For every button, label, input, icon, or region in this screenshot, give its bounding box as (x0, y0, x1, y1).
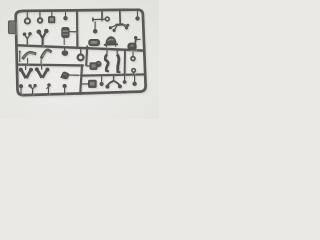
part: square block right of V3 upper (87, 63, 98, 70)
vertical runner V4 (right, rail A to rail B) (124, 51, 126, 75)
rail B right (lower middle runner, right half) (81, 74, 145, 75)
vertical runner above spider part (119, 10, 121, 24)
part: bent arm 1 under rail A (left) (19, 51, 37, 65)
part: small Y figure on rail A (left) (23, 33, 31, 45)
part: seated figure near right rail (128, 37, 141, 51)
sprue outer frame (16, 10, 146, 95)
part: bottom pin 1 (ball head) (19, 85, 22, 95)
part: square block right of V3 lower (82, 80, 97, 88)
part: wishbone under rail B right (106, 75, 122, 88)
part: small pin with ball on top rail (64, 12, 67, 20)
part: V boots pair 2 under rail B (35, 66, 49, 78)
photo background (0, 0, 159, 119)
part: spider (bar with four legs) (109, 24, 129, 31)
part: hanging hook pin (93, 22, 97, 34)
part: canteen block on top rail (48, 12, 55, 23)
vertical runner V3 lower (rail B to bottom rail) (80, 65, 82, 94)
part: small gun blob under rail A (62, 47, 69, 56)
part: bent arm 2 under rail A (41, 50, 52, 65)
part: large Y figure on rail A (37, 29, 48, 45)
part: pin with ball near top-right corner (136, 11, 139, 20)
part: boot attached to V3 lower (60, 72, 79, 80)
part: bent leg hanging from rail A (105, 50, 109, 72)
part: crossbar with ring (on V3 stub) (93, 17, 109, 22)
part: bottom flag pin (46, 84, 50, 95)
part: dome helmet on rail A (104, 37, 118, 48)
part: pin with ball below rail B right 3 (133, 75, 136, 85)
part: ring on top rail 2 (38, 12, 43, 23)
part: ring pin above rail B right (132, 69, 136, 75)
vertical runner V2 (76, 11, 79, 46)
vertical runner V3 middle (rail A to rail B) (86, 47, 87, 66)
part: block attached outside left rail (8, 21, 15, 34)
part: pin with dot below rail B right 2 (123, 76, 126, 84)
part: flat pouch on rail A (middle) (89, 39, 100, 45)
part: bottom pin 2 (ball head) (63, 84, 66, 94)
part: bottom Y pin (29, 84, 36, 95)
part: ring on top rail 1 (25, 12, 30, 24)
part: V boots pair 1 under rail B (19, 66, 32, 78)
vertical runner V3 upper stub (101, 10, 103, 20)
part: ring pin below rail A (right) (131, 52, 135, 61)
part: pouch attached to V2 (62, 27, 77, 45)
part: pin with ball below rail B right 1 (100, 76, 103, 85)
part: straight leg hanging from rail A (116, 50, 120, 72)
part: round blob left of legs (94, 61, 101, 66)
part: donut ring under rail A (78, 48, 84, 61)
rail A (upper middle runner) (16, 45, 144, 50)
photo grain (0, 0, 159, 119)
rail B left (lower middle runner, left half) (17, 63, 83, 66)
